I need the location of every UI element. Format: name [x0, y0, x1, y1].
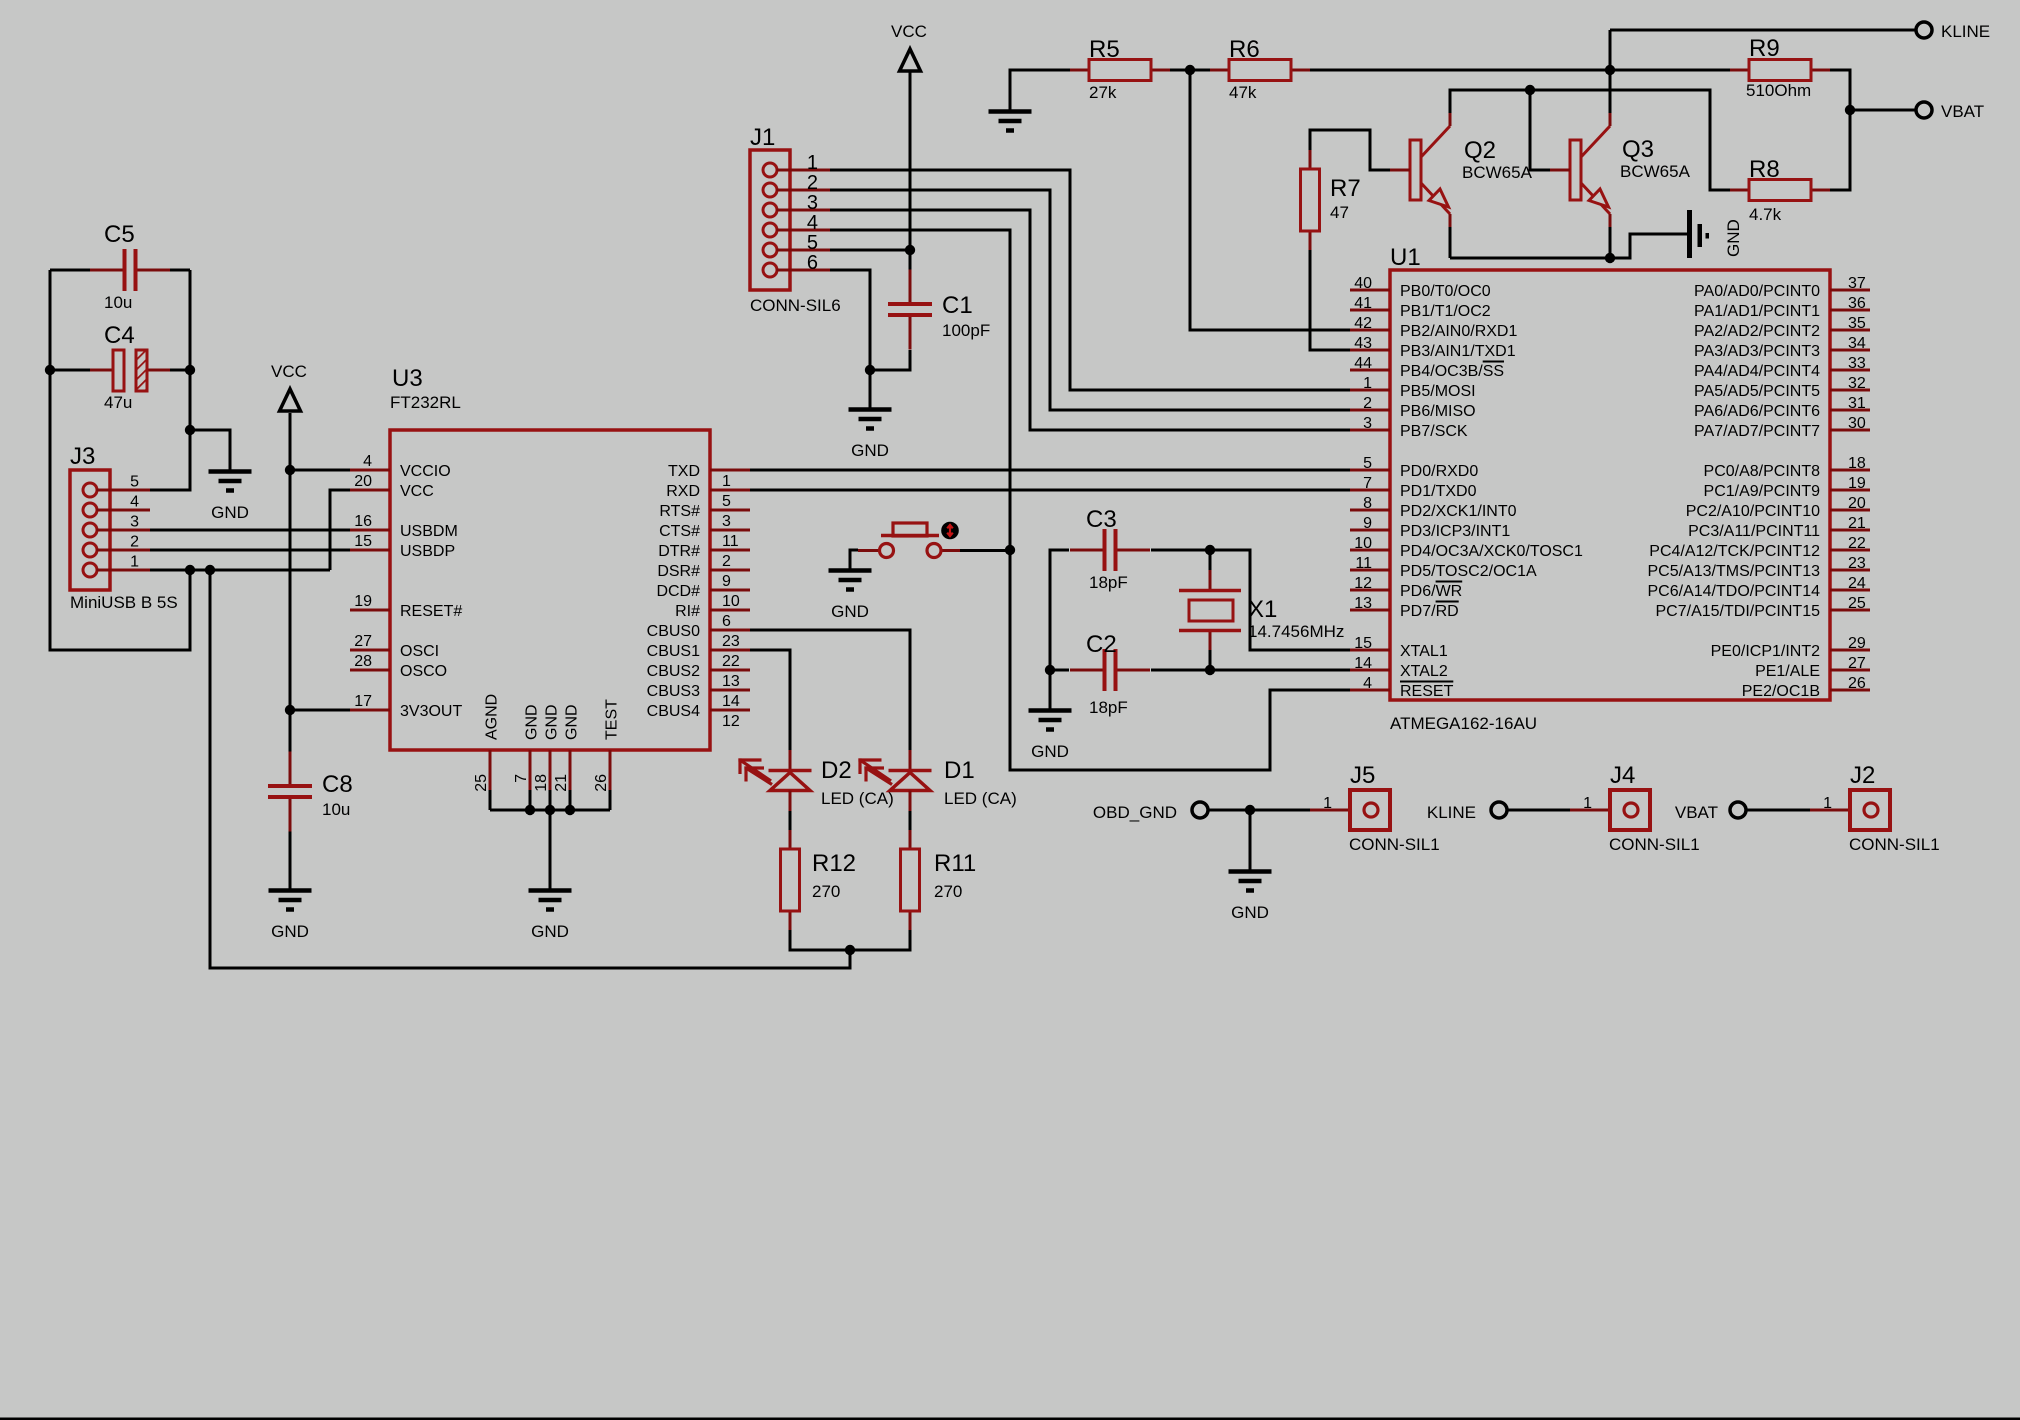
svg-text:27: 27 — [1848, 655, 1866, 672]
svg-text:PD2/XCK1/INT0: PD2/XCK1/INT0 — [1400, 503, 1517, 520]
svg-text:DSR#: DSR# — [657, 563, 700, 580]
svg-text:3: 3 — [807, 192, 818, 214]
svg-text:4: 4 — [130, 494, 139, 511]
svg-text:RESET: RESET — [1400, 683, 1454, 700]
svg-text:100pF: 100pF — [942, 321, 990, 340]
svg-text:C5: C5 — [104, 221, 135, 248]
svg-text:PA1/AD1/PCINT1: PA1/AD1/PCINT1 — [1694, 303, 1820, 320]
svg-text:D2: D2 — [821, 757, 852, 784]
svg-text:RI#: RI# — [675, 603, 700, 620]
svg-text:PE0/ICP1/INT2: PE0/ICP1/INT2 — [1711, 643, 1820, 660]
svg-text:3: 3 — [130, 514, 139, 531]
svg-text:37: 37 — [1848, 275, 1866, 292]
svg-text:PB1/T1/OC2: PB1/T1/OC2 — [1400, 303, 1491, 320]
svg-text:PC6/A14/TDO/PCINT14: PC6/A14/TDO/PCINT14 — [1648, 583, 1821, 600]
svg-text:GND: GND — [544, 704, 561, 740]
svg-text:LED (CA): LED (CA) — [944, 789, 1017, 808]
svg-text:U3: U3 — [392, 365, 423, 392]
svg-text:GND: GND — [851, 441, 889, 460]
svg-text:USBDM: USBDM — [400, 523, 458, 540]
svg-text:DTR#: DTR# — [658, 543, 700, 560]
svg-text:20: 20 — [1848, 495, 1866, 512]
svg-text:20: 20 — [354, 473, 372, 490]
svg-text:15: 15 — [354, 533, 372, 550]
svg-text:J4: J4 — [1610, 762, 1635, 789]
svg-text:PA4/AD4/PCINT4: PA4/AD4/PCINT4 — [1694, 363, 1820, 380]
svg-text:10: 10 — [1354, 535, 1372, 552]
svg-text:PE1/ALE: PE1/ALE — [1755, 663, 1820, 680]
svg-text:PB3/AIN1/TXD1: PB3/AIN1/TXD1 — [1400, 343, 1516, 360]
svg-text:C1: C1 — [942, 292, 973, 319]
svg-text:1: 1 — [130, 554, 139, 571]
svg-text:CONN-SIL1: CONN-SIL1 — [1849, 835, 1940, 854]
svg-text:10: 10 — [722, 593, 740, 610]
svg-text:26: 26 — [1848, 675, 1866, 692]
svg-text:R12: R12 — [812, 850, 856, 877]
svg-text:510Ohm: 510Ohm — [1746, 81, 1811, 100]
svg-text:KLINE: KLINE — [1941, 22, 1990, 41]
svg-text:ATMEGA162-16AU: ATMEGA162-16AU — [1390, 714, 1537, 733]
svg-text:13: 13 — [1354, 595, 1372, 612]
svg-text:42: 42 — [1354, 315, 1372, 332]
svg-text:R11: R11 — [934, 850, 976, 877]
svg-text:18pF: 18pF — [1089, 573, 1128, 592]
svg-text:GND: GND — [271, 922, 309, 941]
svg-text:14: 14 — [1354, 655, 1372, 672]
svg-text:PC7/A15/TDI/PCINT15: PC7/A15/TDI/PCINT15 — [1656, 603, 1821, 620]
svg-text:34: 34 — [1848, 335, 1866, 352]
svg-text:3V3OUT: 3V3OUT — [400, 703, 462, 720]
svg-text:6: 6 — [807, 252, 818, 274]
svg-text:OBD_GND: OBD_GND — [1093, 803, 1177, 822]
svg-text:2: 2 — [807, 172, 818, 194]
svg-text:LED (CA): LED (CA) — [821, 789, 894, 808]
svg-text:4: 4 — [807, 212, 818, 234]
svg-text:1: 1 — [1363, 375, 1372, 392]
svg-text:MiniUSB B 5S: MiniUSB B 5S — [70, 593, 178, 612]
svg-text:R9: R9 — [1749, 35, 1780, 62]
svg-text:36: 36 — [1848, 295, 1866, 312]
svg-text:USBDP: USBDP — [400, 543, 455, 560]
svg-text:PA3/AD3/PCINT3: PA3/AD3/PCINT3 — [1694, 343, 1820, 360]
svg-text:X1: X1 — [1248, 596, 1277, 623]
svg-text:J5: J5 — [1350, 762, 1375, 789]
svg-text:VCC: VCC — [271, 362, 307, 381]
svg-text:2: 2 — [1363, 395, 1372, 412]
svg-text:18pF: 18pF — [1089, 698, 1128, 717]
svg-text:RESET#: RESET# — [400, 603, 462, 620]
svg-text:40: 40 — [1354, 275, 1372, 292]
svg-text:PB7/SCK: PB7/SCK — [1400, 423, 1468, 440]
svg-text:27k: 27k — [1089, 83, 1117, 102]
svg-text:R5: R5 — [1089, 36, 1120, 63]
svg-text:GND: GND — [531, 922, 569, 941]
svg-text:PB4/OC3B/SS: PB4/OC3B/SS — [1400, 363, 1504, 380]
svg-text:4: 4 — [1363, 675, 1372, 692]
svg-text:CONN-SIL1: CONN-SIL1 — [1349, 835, 1440, 854]
svg-text:18: 18 — [533, 774, 550, 792]
svg-text:12: 12 — [722, 713, 740, 730]
svg-text:8: 8 — [1363, 495, 1372, 512]
svg-text:1: 1 — [1823, 795, 1832, 812]
svg-text:PD5/TOSC2/OC1A: PD5/TOSC2/OC1A — [1400, 563, 1537, 580]
svg-text:PC1/A9/PCINT9: PC1/A9/PCINT9 — [1704, 483, 1821, 500]
svg-text:35: 35 — [1848, 315, 1866, 332]
svg-text:PB6/MISO: PB6/MISO — [1400, 403, 1476, 420]
svg-text:25: 25 — [473, 774, 490, 792]
svg-text:PA7/AD7/PCINT7: PA7/AD7/PCINT7 — [1694, 423, 1820, 440]
svg-text:PC3/A11/PCINT11: PC3/A11/PCINT11 — [1688, 523, 1820, 540]
svg-text:1: 1 — [722, 473, 731, 490]
svg-text:RXD: RXD — [666, 483, 700, 500]
svg-text:6: 6 — [722, 613, 731, 630]
svg-text:270: 270 — [812, 882, 840, 901]
svg-text:GND: GND — [831, 602, 869, 621]
svg-text:PD0/RXD0: PD0/RXD0 — [1400, 463, 1478, 480]
svg-text:11: 11 — [1355, 555, 1372, 572]
svg-text:2: 2 — [722, 553, 731, 570]
svg-text:11: 11 — [722, 533, 739, 550]
svg-text:J3: J3 — [70, 443, 95, 470]
svg-text:GND: GND — [1031, 742, 1069, 761]
svg-text:PA0/AD0/PCINT0: PA0/AD0/PCINT0 — [1694, 283, 1820, 300]
svg-text:28: 28 — [354, 653, 372, 670]
svg-text:31: 31 — [1848, 395, 1866, 412]
svg-text:29: 29 — [1848, 635, 1866, 652]
svg-text:43: 43 — [1354, 335, 1372, 352]
svg-text:27: 27 — [354, 633, 372, 650]
svg-text:GND: GND — [211, 503, 249, 522]
svg-text:PD7/RD: PD7/RD — [1400, 603, 1459, 620]
svg-text:18: 18 — [1848, 455, 1866, 472]
svg-text:12: 12 — [1354, 575, 1372, 592]
svg-text:5: 5 — [807, 232, 818, 254]
svg-text:22: 22 — [722, 653, 740, 670]
svg-text:24: 24 — [1848, 575, 1866, 592]
svg-text:19: 19 — [354, 593, 372, 610]
svg-text:XTAL2: XTAL2 — [1400, 663, 1448, 680]
svg-text:7: 7 — [513, 774, 530, 783]
svg-text:26: 26 — [593, 774, 610, 792]
svg-text:PA5/AD5/PCINT5: PA5/AD5/PCINT5 — [1694, 383, 1820, 400]
svg-text:CBUS2: CBUS2 — [647, 663, 700, 680]
svg-text:44: 44 — [1354, 355, 1372, 372]
svg-text:5: 5 — [722, 493, 731, 510]
svg-text:PC2/A10/PCINT10: PC2/A10/PCINT10 — [1686, 503, 1820, 520]
svg-text:41: 41 — [1354, 295, 1372, 312]
svg-text:22: 22 — [1848, 535, 1866, 552]
svg-text:D1: D1 — [944, 757, 975, 784]
svg-text:VBAT: VBAT — [1675, 803, 1718, 822]
svg-text:PB2/AIN0/RXD1: PB2/AIN0/RXD1 — [1400, 323, 1517, 340]
svg-text:BCW65A: BCW65A — [1462, 163, 1533, 182]
svg-text:PC4/A12/TCK/PCINT12: PC4/A12/TCK/PCINT12 — [1649, 543, 1820, 560]
svg-text:33: 33 — [1848, 355, 1866, 372]
svg-text:KLINE: KLINE — [1427, 803, 1476, 822]
svg-text:1: 1 — [1583, 795, 1592, 812]
svg-text:Q2: Q2 — [1464, 137, 1496, 164]
svg-text:CONN-SIL6: CONN-SIL6 — [750, 296, 841, 315]
svg-text:R8: R8 — [1749, 156, 1780, 183]
svg-text:4: 4 — [363, 453, 372, 470]
svg-text:PC5/A13/TMS/PCINT13: PC5/A13/TMS/PCINT13 — [1648, 563, 1821, 580]
svg-text:Q3: Q3 — [1622, 136, 1654, 163]
svg-text:10u: 10u — [322, 800, 350, 819]
svg-text:32: 32 — [1848, 375, 1866, 392]
svg-text:3: 3 — [1363, 415, 1372, 432]
svg-text:OSCI: OSCI — [400, 643, 439, 660]
svg-text:XTAL1: XTAL1 — [1400, 643, 1448, 660]
svg-text:OSCO: OSCO — [400, 663, 447, 680]
svg-text:CBUS1: CBUS1 — [647, 643, 700, 660]
svg-text:CBUS4: CBUS4 — [647, 703, 700, 720]
svg-text:1: 1 — [1323, 795, 1332, 812]
svg-text:CONN-SIL1: CONN-SIL1 — [1609, 835, 1700, 854]
svg-text:4.7k: 4.7k — [1749, 205, 1782, 224]
svg-text:PB0/T0/OC0: PB0/T0/OC0 — [1400, 283, 1491, 300]
svg-text:47u: 47u — [104, 393, 132, 412]
svg-text:AGND: AGND — [484, 694, 501, 740]
svg-text:270: 270 — [934, 882, 962, 901]
svg-text:C2: C2 — [1086, 631, 1117, 658]
svg-text:PE2/OC1B: PE2/OC1B — [1742, 683, 1820, 700]
svg-text:FT232RL: FT232RL — [390, 393, 461, 412]
svg-text:15: 15 — [1354, 635, 1372, 652]
svg-text:RTS#: RTS# — [659, 503, 700, 520]
svg-text:47: 47 — [1330, 203, 1349, 222]
svg-text:VBAT: VBAT — [1941, 102, 1984, 121]
svg-text:C8: C8 — [322, 771, 353, 798]
svg-text:23: 23 — [722, 633, 740, 650]
svg-text:CTS#: CTS# — [659, 523, 700, 540]
svg-text:9: 9 — [1363, 515, 1372, 532]
svg-text:R6: R6 — [1229, 36, 1260, 63]
svg-text:BCW65A: BCW65A — [1620, 162, 1691, 181]
svg-text:14: 14 — [722, 693, 740, 710]
svg-text:VCC: VCC — [400, 483, 434, 500]
svg-text:17: 17 — [354, 693, 372, 710]
svg-text:VCCIO: VCCIO — [400, 463, 451, 480]
svg-text:U1: U1 — [1390, 244, 1421, 271]
svg-text:PA2/AD2/PCINT2: PA2/AD2/PCINT2 — [1694, 323, 1820, 340]
svg-text:47k: 47k — [1229, 83, 1257, 102]
svg-text:J1: J1 — [750, 124, 775, 151]
svg-text:PD6/WR: PD6/WR — [1400, 583, 1462, 600]
svg-text:5: 5 — [130, 474, 139, 491]
svg-text:PD1/TXD0: PD1/TXD0 — [1400, 483, 1477, 500]
svg-text:21: 21 — [1848, 515, 1866, 532]
svg-text:C4: C4 — [104, 322, 135, 349]
svg-text:TXD: TXD — [668, 463, 700, 480]
svg-text:R7: R7 — [1330, 175, 1361, 202]
svg-text:GND: GND — [564, 704, 581, 740]
svg-text:PA6/AD6/PCINT6: PA6/AD6/PCINT6 — [1694, 403, 1820, 420]
svg-text:CBUS3: CBUS3 — [647, 683, 700, 700]
svg-text:PC0/A8/PCINT8: PC0/A8/PCINT8 — [1704, 463, 1821, 480]
svg-text:PD3/ICP3/INT1: PD3/ICP3/INT1 — [1400, 523, 1510, 540]
svg-text:16: 16 — [354, 513, 372, 530]
svg-text:7: 7 — [1363, 475, 1372, 492]
svg-text:GND: GND — [1724, 219, 1743, 257]
svg-text:J2: J2 — [1850, 762, 1875, 789]
svg-text:1: 1 — [807, 152, 818, 174]
svg-text:25: 25 — [1848, 595, 1866, 612]
svg-text:3: 3 — [722, 513, 731, 530]
svg-text:21: 21 — [553, 774, 570, 792]
svg-text:19: 19 — [1848, 475, 1866, 492]
svg-text:TEST: TEST — [604, 699, 621, 740]
svg-text:CBUS0: CBUS0 — [647, 623, 700, 640]
svg-text:14.7456MHz: 14.7456MHz — [1248, 622, 1344, 641]
svg-text:13: 13 — [722, 673, 740, 690]
svg-text:10u: 10u — [104, 293, 132, 312]
svg-text:GND: GND — [524, 704, 541, 740]
svg-text:30: 30 — [1848, 415, 1866, 432]
svg-text:GND: GND — [1231, 903, 1269, 922]
svg-text:DCD#: DCD# — [656, 583, 700, 600]
svg-text:C3: C3 — [1086, 506, 1117, 533]
svg-text:9: 9 — [722, 573, 731, 590]
svg-text:5: 5 — [1363, 455, 1372, 472]
svg-text:23: 23 — [1848, 555, 1866, 572]
svg-text:PB5/MOSI: PB5/MOSI — [1400, 383, 1476, 400]
svg-text:2: 2 — [130, 534, 139, 551]
svg-text:PD4/OC3A/XCK0/TOSC1: PD4/OC3A/XCK0/TOSC1 — [1400, 543, 1583, 560]
svg-text:VCC: VCC — [891, 22, 927, 41]
